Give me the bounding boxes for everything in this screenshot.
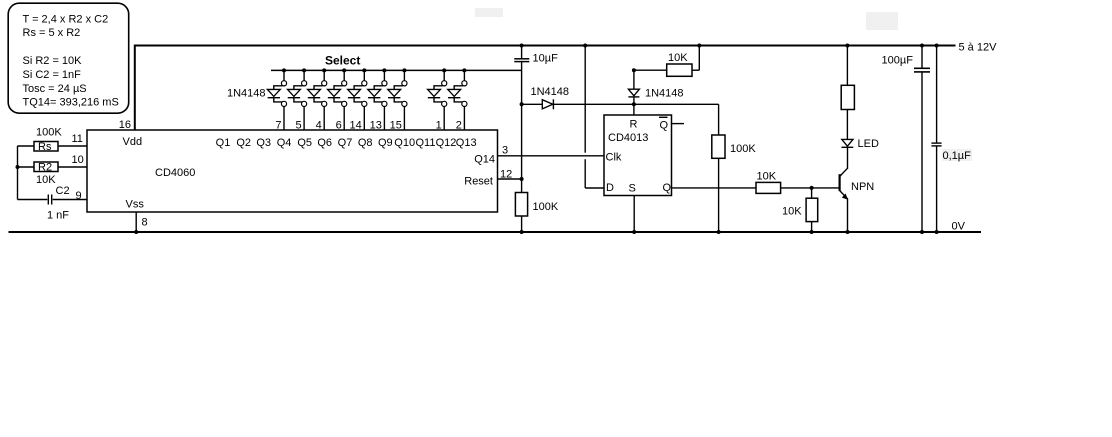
node 10K/diode junction [632,68,636,72]
svg-text:Si R2 = 10K: Si R2 = 10K [23,55,83,67]
svg-text:Si C2 = 1nF: Si C2 = 1nF [23,69,82,81]
svg-text:14: 14 [350,120,362,132]
wire rail to D pin (with hop at Clk) [584,46,586,153]
svg-text:Select: Select [325,54,360,68]
svg-text:Q6: Q6 [317,137,332,149]
wire diode 1 to CD4060 pin 7 [283,107,285,131]
diode D8 1N4148 select to pin 1 [428,68,447,106]
svg-text:10K: 10K [36,174,56,186]
wire diode 7 to CD4060 pin 15 [403,107,405,131]
node Reset tee junction [520,177,524,181]
LED diode [842,138,879,150]
svg-text:0,1µF: 0,1µF [943,150,972,162]
svg-text:100µF: 100µF [882,55,914,67]
svg-text:S: S [629,183,636,195]
svg-text:Clk: Clk [606,152,622,164]
svg-text:R2: R2 [38,162,52,174]
wire Q output [672,187,757,189]
svg-text:Q5: Q5 [297,137,312,149]
node diode/R-wire junction [632,102,636,106]
resistor 100K (R line pulldown) [712,104,757,232]
background artifact patch [866,12,898,30]
svg-text:Q10: Q10 [394,137,415,149]
svg-text:9: 9 [76,190,82,202]
svg-text:CD4060: CD4060 [155,167,195,179]
svg-text:Q14: Q14 [474,154,495,166]
svg-text:2: 2 [456,120,462,132]
svg-text:10: 10 [72,154,84,166]
node Select/diode-wire junction [520,102,524,106]
svg-text:Q11: Q11 [416,137,436,149]
svg-text:Tosc = 24 µS: Tosc = 24 µS [23,83,87,95]
svg-text:10K: 10K [668,52,688,64]
svg-text:8: 8 [142,217,148,229]
node junction Rs/R2/C2 [16,165,20,169]
node pin8/ground junction [134,230,138,234]
svg-text:Q12: Q12 [436,137,457,149]
node emitter/ground junction [846,230,850,234]
diode 1N4148 horizontal [531,86,570,109]
svg-text:10K: 10K [782,206,802,218]
pin Qbar stub [672,123,685,125]
capacitor C 10uF [514,46,558,65]
wire 10K to base [781,187,840,189]
capacitor 0,1uF [931,46,972,233]
resistor R2 10K [18,162,88,187]
wire 10uF down through Select to reset node [521,62,523,193]
diode D3 1N4148 select to pin 4 [308,68,327,106]
node 0.1uF/ground junction [935,230,939,234]
node S/ground junction [632,230,636,234]
svg-text:0V: 0V [952,221,966,233]
transistor Q1 NPN [840,148,875,233]
svg-text:CD4013: CD4013 [608,132,648,144]
net Select bus [271,69,522,71]
diode D2 1N4148 select to pin 5 [288,68,307,106]
svg-text:Q: Q [660,120,669,132]
capacitor C2 1nF [18,185,88,222]
diode D1 1N4148 select to pin 7 [267,68,286,106]
svg-text:Q4: Q4 [277,137,292,149]
svg-text:5: 5 [295,120,301,132]
svg-text:10K: 10K [757,171,777,183]
wire Reset pin12 to 100K [498,178,522,180]
svg-text:Q7: Q7 [338,137,353,149]
svg-text:3: 3 [502,145,508,157]
resistor (LED series) [841,46,854,140]
svg-text:Q3: Q3 [256,137,271,149]
svg-text:16: 16 [119,119,131,131]
diode D9 1N4148 select to pin 2 [448,68,467,106]
wire 100K to ground [521,216,523,232]
diode D5 1N4148 select to pin 14 [348,68,367,106]
wire Q14 pin3 to CD4013 Clk [498,155,605,157]
svg-text:Q8: Q8 [358,137,373,149]
svg-text:TQ14= 393,216 mS: TQ14= 393,216 mS [23,97,119,109]
svg-text:100K: 100K [730,143,756,155]
pin 8 wire (Vss to ground) [135,212,137,232]
node rail/LED-branch junction [845,44,849,48]
svg-text:1: 1 [436,120,442,132]
resistor 10K (base series) [756,171,781,194]
diode D7 1N4148 select to pin 15 [388,68,407,106]
svg-text:R: R [630,119,638,131]
wire diode 5 to CD4060 pin 14 [363,107,365,131]
resistor Rs 100K [18,127,88,154]
pin S wire to ground [633,196,635,233]
svg-text:Q2: Q2 [236,137,251,149]
diode 1N4148 vertical (to R pin) [628,70,683,104]
svg-text:Reset: Reset [464,176,493,188]
svg-text:D: D [606,182,614,194]
svg-text:Vdd: Vdd [123,136,143,148]
node 10K/ground junction [810,230,814,234]
svg-text:7: 7 [275,120,281,132]
diode D4 1N4148 select to pin 6 [328,68,347,106]
capacitor 100uF [882,46,931,233]
node rail/0.1uF junction [935,44,939,48]
wire diode 4 to CD4060 pin 6 [343,107,345,131]
wire 10K to rail [698,46,700,71]
node 100uF/ground junction [920,230,924,234]
net ground rail (0V) [9,231,982,233]
wire left vertical (Rs/R2/C2 common) [17,146,19,200]
svg-text:Q13: Q13 [456,137,477,149]
svg-text:5 à 12V: 5 à 12V [959,42,998,54]
svg-text:LED: LED [858,138,879,150]
svg-text:T = 2,4 x R2 x C2: T = 2,4 x R2 x C2 [23,13,109,25]
node rail/10K junction [697,44,701,48]
svg-text:Rs: Rs [38,141,52,153]
resistor 100K (reset pulldown) [515,193,558,217]
wire select node to R-diode node [522,103,719,105]
net Vdd rail (5 a 12V) [135,46,956,131]
label Qbar [659,117,669,131]
op-amp/IC U1 CD4060 box [87,130,498,212]
wire diode 3 to CD4060 pin 4 [323,107,325,131]
svg-text:1 nF: 1 nF [47,210,69,222]
svg-text:10µF: 10µF [533,53,559,65]
node rail/D-line junction [583,44,587,48]
op-amp/IC U2 CD4013 box [604,115,672,196]
resistor 10K (base pulldown) [782,188,818,232]
svg-text:Rs = 5 x R2: Rs = 5 x R2 [23,27,81,39]
svg-text:Q1: Q1 [216,137,231,149]
pin R wire [633,104,635,115]
svg-text:Q: Q [663,182,672,194]
node rail/100uF junction [920,44,924,48]
wire diode 6 to CD4060 pin 13 [383,107,385,131]
svg-text:Vss: Vss [126,199,145,211]
svg-text:4: 4 [316,120,322,132]
svg-text:13: 13 [370,120,382,132]
wire diode 8 to CD4060 pin 1 [443,107,445,131]
node 100K/ground junction [717,230,721,234]
diode D6 1N4148 select to pin 13 [368,68,387,106]
svg-text:1N4148: 1N4148 [531,86,570,98]
note box with formulas [8,3,129,113]
background artifact patch [475,8,503,17]
wire diode 9 to CD4060 pin 2 [463,107,465,131]
svg-text:6: 6 [336,120,342,132]
node ground junction [520,230,524,234]
wire diode 2 to CD4060 pin 5 [303,107,305,131]
svg-text:100K: 100K [36,127,62,139]
svg-text:C2: C2 [56,185,70,197]
svg-text:15: 15 [390,120,402,132]
resistor 10K (R pull-up) [634,52,699,76]
node base/pulldown junction [810,186,814,190]
svg-text:1N4148: 1N4148 [227,88,266,100]
node rail/10uF junction [520,44,524,48]
svg-text:NPN: NPN [851,181,874,193]
svg-text:1N4148: 1N4148 [645,88,684,100]
svg-text:100K: 100K [533,201,559,213]
svg-text:Q9: Q9 [378,137,393,149]
svg-text:11: 11 [72,133,83,145]
